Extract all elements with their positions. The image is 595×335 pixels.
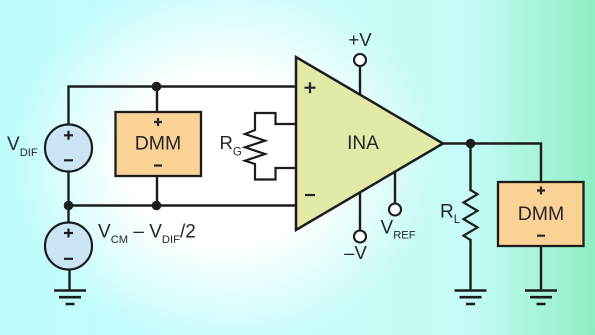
supply terminal -V	[354, 231, 366, 243]
reference terminal VREF	[389, 204, 401, 216]
svg-text:INA: INA	[347, 133, 379, 154]
wire lower rail to - input	[69, 204, 297, 206]
pin + input	[305, 82, 316, 93]
wire top rail from VDIF to + input	[69, 87, 297, 125]
wire output junction to RL	[469, 144, 471, 191]
resistor RL	[464, 190, 478, 240]
pin - input	[305, 194, 315, 196]
svg-text:+V: +V	[348, 29, 372, 50]
wire DMM2 bottom to ground	[540, 246, 542, 290]
node junction output	[466, 139, 476, 149]
DMM box 2	[498, 182, 584, 246]
ground below DMM2	[525, 291, 557, 305]
ground below VCM	[54, 291, 86, 305]
wire output rail to DMM2	[443, 144, 541, 183]
DMM box 1	[116, 112, 202, 176]
voltage source VCM	[45, 223, 92, 270]
node junction on top rail	[152, 82, 162, 92]
resistor RG with bracket wires	[245, 113, 296, 180]
wire -V terminal to op-amp	[359, 193, 361, 231]
supply terminal +V	[354, 54, 366, 66]
wire DMM1 top to top rail	[156, 87, 158, 113]
node junction DMM1/lower rail	[152, 201, 162, 211]
voltage source VDIF	[45, 125, 92, 172]
op-amp U1 INA	[296, 57, 443, 230]
ground below RL	[455, 291, 487, 305]
svg-text:–V: –V	[344, 242, 367, 263]
wire RL bottom to ground	[469, 240, 471, 290]
svg-text:DMM: DMM	[518, 203, 565, 225]
wire DMM1 bottom to lower rail	[156, 176, 158, 206]
wire VREF terminal to op-amp	[394, 172, 396, 204]
svg-text:DMM: DMM	[135, 133, 182, 155]
wire VDIF bottom to VCM top	[67, 172, 69, 223]
wire VCM bottom to ground	[68, 270, 70, 291]
node junction VDIF/lower rail	[64, 201, 74, 211]
wire +V terminal to op-amp	[359, 67, 361, 96]
